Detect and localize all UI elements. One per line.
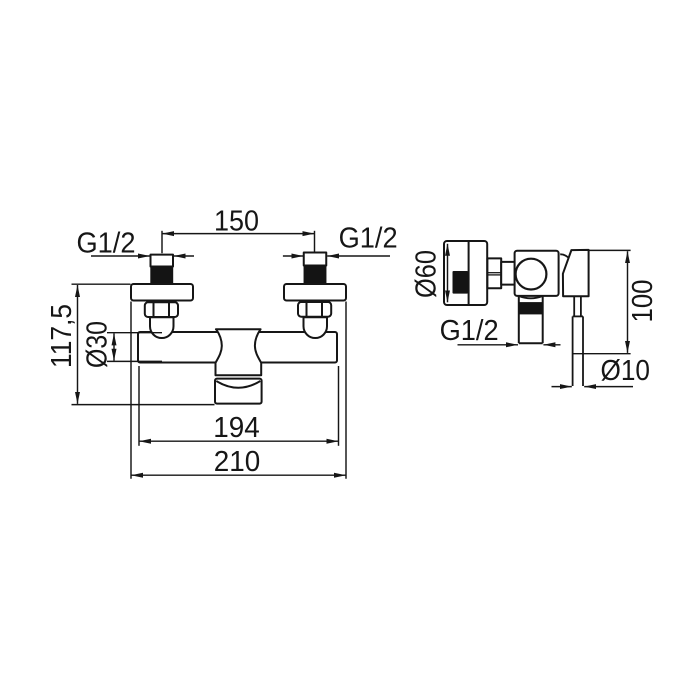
- svg-text:210: 210: [214, 446, 261, 478]
- right inlet thread (black): [304, 265, 327, 284]
- left inlet tailpiece (rounded bottom): [150, 317, 174, 338]
- dim 194 line: [139, 440, 339, 442]
- label G1/2 left leader arrow: [91, 255, 150, 257]
- dim 117,5 line: [77, 285, 79, 404]
- svg-text:G1/2: G1/2: [77, 227, 136, 259]
- left coupling nut: [145, 302, 178, 317]
- mixer body bar (front view): [138, 332, 337, 363]
- dim 117,5 extension top: [72, 283, 131, 285]
- svg-text:Ø10: Ø10: [601, 355, 651, 387]
- shower outlet block: [215, 379, 262, 404]
- side pivot circle: [516, 259, 547, 290]
- label G1/2 left counter arrow: [174, 255, 194, 257]
- label G1/2 side counter arrow: [543, 344, 560, 346]
- dim diam30 line: [113, 333, 115, 360]
- dim 100 line: [627, 251, 629, 353]
- right coupling nut: [298, 302, 331, 317]
- left inlet pipe stub: [151, 255, 174, 267]
- dim diam30 extension top: [107, 332, 162, 334]
- label G1/2 right leader arrow: [327, 255, 390, 257]
- left inlet thread (black): [150, 266, 173, 284]
- shower outlet curved face: [216, 381, 260, 388]
- side lever rod joint: [573, 315, 583, 317]
- dim 100 extension bottom: [573, 353, 631, 355]
- svg-text:117,5: 117,5: [46, 304, 78, 368]
- dim 150 line: [162, 233, 315, 235]
- side outlet pipe: [519, 297, 543, 344]
- dim 194 extension right: [338, 366, 340, 446]
- side coupling nut: [487, 258, 501, 288]
- svg-text:150: 150: [214, 205, 259, 237]
- right inlet pipe stub: [304, 253, 327, 266]
- svg-text:100: 100: [627, 280, 659, 323]
- side handle collar curve: [560, 254, 568, 257]
- dim 210 line: [131, 474, 346, 476]
- dim diam10 right arrow: [584, 386, 633, 388]
- svg-text:G1/2: G1/2: [440, 315, 499, 347]
- svg-text:194: 194: [213, 412, 260, 444]
- right wall flange: [284, 284, 346, 301]
- side connector shaft: [501, 262, 515, 285]
- svg-text:Ø60: Ø60: [410, 250, 442, 298]
- side handle lever: [563, 250, 589, 296]
- right inlet tailpiece (rounded bottom): [304, 317, 328, 338]
- side lever rod upper: [573, 297, 583, 386]
- dim diam30 extension bottom: [107, 360, 162, 362]
- label G1/2 right counter arrow: [283, 255, 304, 257]
- side inlet thread (black): [453, 271, 469, 294]
- dim 210 extension right: [345, 302, 347, 479]
- side view wall flange: [444, 241, 487, 305]
- side flange divider line: [468, 242, 470, 305]
- dim diam10 left arrow: [552, 386, 572, 388]
- dim 150 extension right: [314, 231, 316, 252]
- dim 117,5 extension bottom: [72, 404, 215, 406]
- dim 210 extension left: [130, 302, 132, 479]
- dim 150 extension left: [161, 231, 163, 253]
- dim 194 extension left: [138, 366, 140, 446]
- label G1/2 side leader arrow: [458, 344, 519, 346]
- side mixer body block: [515, 251, 559, 296]
- dim 100 extension top: [590, 249, 631, 251]
- dim diam60 line: [447, 244, 449, 302]
- svg-text:G1/2: G1/2: [339, 223, 398, 255]
- left wall flange: [131, 284, 193, 301]
- side nut groove lines: [487, 272, 501, 274]
- side lever rod lower: [572, 316, 574, 386]
- side outlet pipe fillet arc: [519, 296, 543, 298]
- side outlet thread (black): [519, 302, 543, 314]
- central cartridge housing (hourglass): [216, 329, 262, 375]
- svg-text:Ø30: Ø30: [81, 321, 113, 368]
